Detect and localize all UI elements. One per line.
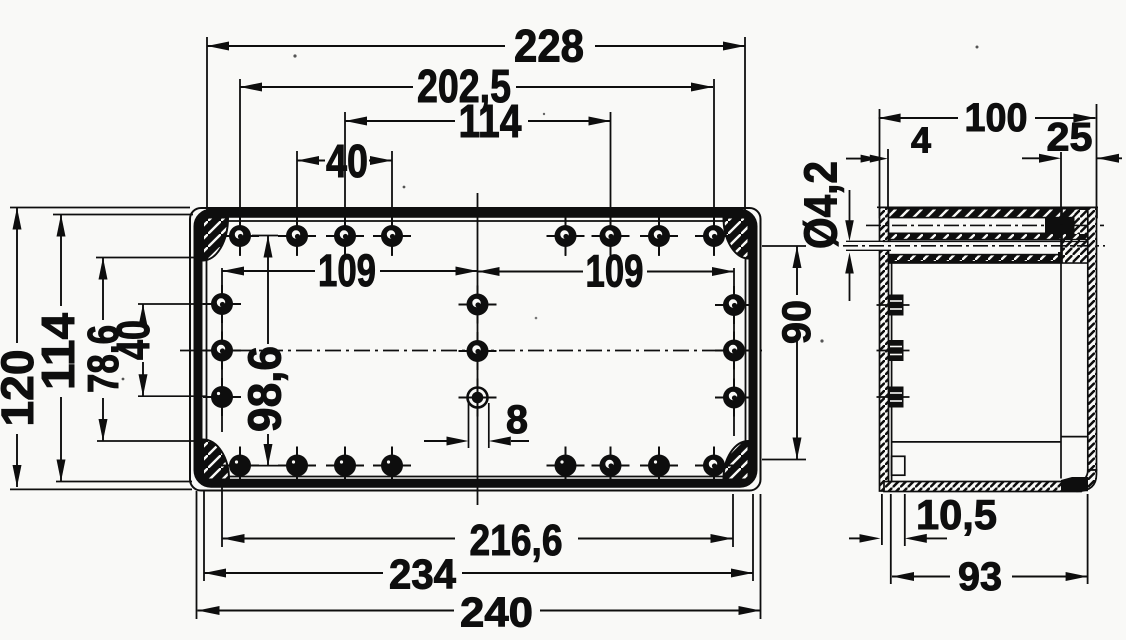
bottom-right corner screw pocket (723, 441, 748, 480)
dimension 8 lines (424, 403, 529, 448)
hole middle column y=351 (459, 332, 497, 370)
centre line through bottom hole x=565.5 (565, 447, 567, 484)
screw hole bottom row x=610.5 (592, 447, 630, 485)
dimension 240 text (460, 588, 533, 635)
side view: lid screw in section (1045, 218, 1075, 263)
dimension 240 line (197, 491, 761, 619)
side view: lid lower hatched band (884, 233, 1091, 239)
dimension 202,5 line (240, 83, 713, 92)
centre line through bottom hole x=610.5 (610, 447, 612, 484)
dimension 10,5 line (849, 494, 947, 546)
svg-text:4: 4 (911, 119, 931, 160)
dimension 109 left line (222, 267, 478, 276)
svg-text:Ø4,2: Ø4,2 (794, 161, 846, 249)
dimension 40 left line (138, 304, 206, 396)
dimension 10,5 text (916, 491, 997, 538)
svg-text:25: 25 (1047, 115, 1093, 159)
dimension 202,5 text (417, 60, 511, 112)
svg-text:234: 234 (389, 550, 457, 597)
horizontal centre line of middle hole row (180, 350, 762, 352)
dimension diameter 4,2 arrows (845, 190, 854, 301)
svg-text:40: 40 (107, 320, 159, 360)
svg-text:240: 240 (460, 588, 533, 635)
centre line through bottom hole x=714 (713, 447, 715, 484)
svg-text:10,5: 10,5 (916, 491, 997, 538)
dimension 90 text (775, 300, 819, 344)
side view: lid top hatched band (877, 207, 1098, 217)
svg-text:114: 114 (459, 95, 522, 147)
centre line above top hole x=297 (296, 151, 298, 256)
dimension 25 line (1022, 152, 1122, 208)
dimension 216,6 line (222, 487, 733, 547)
screw hole top row x=659 (640, 217, 678, 255)
screw hole bottom row x=714 (695, 447, 733, 485)
screw hole bottom row x=565.5 (547, 447, 585, 485)
screw hole bottom row x=240 (221, 447, 259, 485)
hole left column y=304 (203, 285, 241, 323)
hole right column y=350.5 (715, 332, 753, 370)
side view: wall boss at y=350.5 (877, 340, 910, 361)
dimension 114 left text (32, 313, 84, 390)
screw hole top row x=392 (373, 217, 411, 255)
centre line above top hole x=659 (658, 218, 660, 256)
dimension 98,6 line (252, 236, 278, 467)
centre line above top hole x=240 (239, 79, 241, 256)
dimension 4 text (911, 119, 931, 160)
centre line through bottom hole x=240 (239, 447, 241, 484)
dimension 78,6 line (96, 258, 204, 442)
dimension 100 text (965, 96, 1028, 140)
dimension 90 line (762, 246, 806, 460)
screw hole top row x=297 (278, 217, 316, 255)
enclosure top view: inner lip line (207, 221, 746, 477)
dimension 40 left text (107, 320, 159, 360)
dimension 40 line (297, 156, 392, 165)
dimension 4 line (846, 149, 888, 207)
enclosure top view: thick sealing edge (198, 213, 753, 483)
svg-text:98,6: 98,6 (238, 346, 290, 432)
svg-text:109: 109 (586, 246, 644, 297)
hole right column y=305 (715, 286, 753, 324)
screw hole bottom row x=659 (640, 447, 678, 485)
dimension 25 text (1047, 115, 1093, 159)
svg-text:114: 114 (32, 313, 84, 390)
hole right column y=397.5 (715, 379, 753, 417)
side view: bottom floor hatched band (884, 482, 1081, 492)
hole left column y=350.5 (203, 332, 241, 370)
side view: interior outline lines (889, 208, 1088, 481)
scan specks (122, 46, 979, 381)
svg-text:109: 109 (318, 245, 376, 296)
dimension 216,6 text (470, 516, 563, 565)
centre line through bottom hole x=345 (344, 447, 346, 484)
dimension 234 line (204, 491, 753, 581)
dimension 228 text (514, 21, 584, 72)
screw hole top row x=610.5 (592, 217, 630, 255)
screw hole top row x=565.5 (547, 217, 585, 255)
centre line through bottom hole x=659 (658, 447, 660, 484)
bottom-left corner screw pocket (203, 440, 229, 480)
screw hole bottom row x=392 (373, 447, 411, 485)
centre line above top hole x=565.5 (565, 218, 567, 256)
dimension 93 text (958, 555, 1002, 599)
right hole column centre line (733, 268, 735, 436)
svg-text:216,6: 216,6 (470, 516, 563, 565)
dimension 228 line (207, 37, 745, 220)
screw hole bottom row x=297 (278, 447, 316, 485)
svg-text:40: 40 (326, 135, 368, 187)
dimension 120 text (0, 350, 43, 427)
svg-text:90: 90 (775, 300, 819, 344)
screw hole bottom row x=345 (326, 447, 364, 485)
dimension 109 right line (478, 267, 735, 276)
dimension 98,6 text (238, 346, 290, 432)
side view: wall boss at y=305 (877, 295, 910, 316)
svg-text:228: 228 (514, 21, 584, 72)
centre line above top hole x=345 (344, 112, 346, 256)
dimension 100 line (879, 104, 1097, 207)
side view: top-right corner boss hatching (1062, 208, 1096, 264)
dimension 114 left line (53, 215, 193, 482)
side view: wall boss at y=397 (877, 387, 910, 408)
dimension 78,6 text (79, 325, 128, 393)
dimension 114 line (345, 117, 611, 126)
centre line above top hole x=610.5 (610, 112, 612, 256)
top-right corner screw pocket (724, 218, 749, 259)
side view: left wall hatched section (878, 208, 891, 492)
svg-text:100: 100 (965, 96, 1028, 140)
dimension 40 text (326, 135, 368, 187)
svg-text:8: 8 (506, 398, 528, 442)
screw drill hole lines and centre lines (843, 225, 1105, 250)
centre line through bottom hole x=297 (296, 447, 298, 484)
left hole column centre line (221, 268, 223, 432)
vertical centre line of middle hole column (477, 193, 479, 505)
dimension 8 text (506, 398, 528, 442)
hole middle column y=304.5 (459, 286, 497, 324)
screw hole top row x=345 (326, 217, 364, 255)
centre line through bottom hole x=392 (391, 447, 393, 484)
centre line above top hole x=392 (391, 151, 393, 256)
top-left corner screw pocket (203, 218, 228, 261)
dimension 109 right text (586, 246, 644, 297)
dimension diameter 4,2 text (794, 161, 846, 249)
svg-text:93: 93 (958, 555, 1002, 599)
centre line above top hole x=714 (713, 79, 715, 256)
hole middle column y=397.5 (459, 379, 497, 417)
dimension 93 line (891, 494, 1088, 584)
dimension 120 line (10, 208, 192, 490)
dimension 234 text (389, 550, 457, 597)
dimension 109 left text (318, 245, 376, 296)
side view: box flange hatched band (889, 255, 1089, 263)
side view: right wall hatched section (1075, 208, 1097, 492)
side view: bottom-left step detail (892, 456, 905, 475)
hole left column y=397 (203, 378, 241, 416)
enclosure top view: outer wall outline (190, 208, 761, 491)
screw hole top row x=714 (695, 217, 733, 255)
dimension 114 text (459, 95, 522, 147)
side view: bottom-right corner gusset (1061, 477, 1088, 491)
screw hole top row x=240 (221, 217, 259, 255)
